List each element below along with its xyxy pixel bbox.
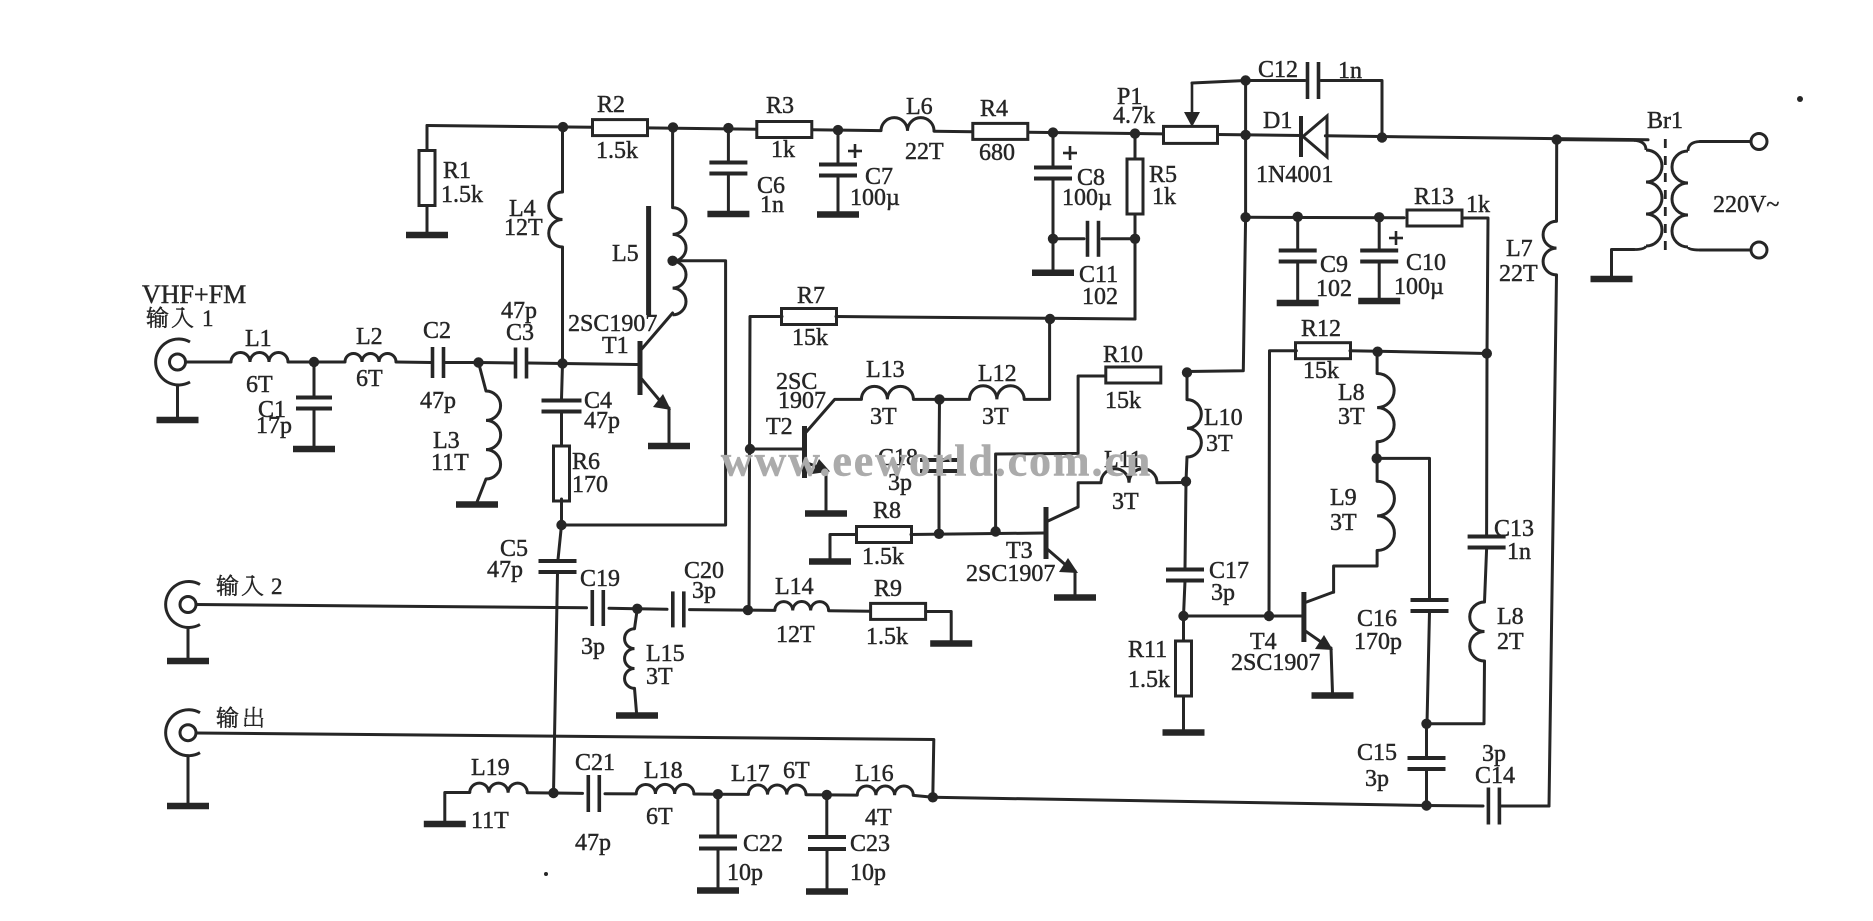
wire C5 down to filter <box>554 573 558 793</box>
svg-text:L8: L8 <box>1497 604 1524 630</box>
transistor T1 base bar <box>638 341 643 395</box>
svg-text:L17: L17 <box>731 761 770 787</box>
wire input2 line <box>196 605 587 608</box>
transformer Br1 core <box>1664 139 1667 250</box>
node R12-L8 <box>1372 347 1382 357</box>
node second rail left <box>1240 212 1250 222</box>
inductor L14 <box>775 574 829 648</box>
svg-text:47p: 47p <box>575 830 611 856</box>
capacitor C16 <box>1354 600 1449 655</box>
svg-text:1.5k: 1.5k <box>441 182 483 208</box>
inductor L3 <box>431 391 501 479</box>
capacitor C10 <box>1360 250 1446 300</box>
svg-text:11T: 11T <box>431 450 469 476</box>
node R8-R10 <box>990 526 1000 536</box>
wire L10 to L11 node <box>1186 457 1187 482</box>
svg-text:www.eeworld.com.cn: www.eeworld.com.cn <box>721 437 1152 486</box>
wire L15 node to C20 <box>637 607 667 611</box>
svg-text:C23: C23 <box>850 831 890 857</box>
wire C1 to ground <box>313 410 316 446</box>
ground C8 <box>1032 269 1074 276</box>
transistor T2 labels <box>766 369 826 440</box>
terminal 220V bottom <box>1751 242 1767 258</box>
svg-text:L18: L18 <box>644 758 683 784</box>
wire R8 node up to R10 <box>996 376 1106 532</box>
svg-text:3T: 3T <box>1330 510 1357 536</box>
wire rail to R5 <box>1134 134 1137 159</box>
svg-text:T1: T1 <box>602 333 629 359</box>
wire C20 to T2 node <box>690 608 748 612</box>
ground C22 <box>697 887 739 894</box>
diode D1 <box>1256 108 1333 188</box>
potentiometer P1 <box>1113 84 1218 143</box>
node R8-C18 <box>934 529 944 539</box>
svg-text:L2: L2 <box>356 324 383 350</box>
wire P1 wiper to C12 node <box>1192 81 1246 84</box>
svg-text:3T: 3T <box>982 404 1009 430</box>
svg-text:10p: 10p <box>727 860 763 886</box>
capacitor C22 <box>699 831 783 886</box>
svg-text:220V~: 220V~ <box>1713 192 1779 218</box>
wire L4 to T1 base <box>561 247 564 364</box>
wire R6 to node <box>560 499 563 525</box>
node output-filter <box>928 792 938 802</box>
wire T2 base <box>750 448 802 451</box>
wire L13 node to C18 <box>938 399 942 459</box>
svg-text:3p: 3p <box>1365 766 1389 792</box>
wire R11 top <box>1182 616 1185 642</box>
wire C13 top <box>1485 354 1488 536</box>
svg-text:1k: 1k <box>1466 192 1490 218</box>
node L13-L12 <box>934 394 944 404</box>
svg-text:22T: 22T <box>1499 261 1538 287</box>
wire L8 to tap <box>1376 442 1379 482</box>
terminal 220V top <box>1751 134 1767 150</box>
wire C14 right <box>1501 805 1549 808</box>
svg-text:R12: R12 <box>1301 316 1341 342</box>
svg-text:C9: C9 <box>1320 252 1348 278</box>
node rail-L5 <box>668 122 678 132</box>
svg-text:15k: 15k <box>1303 358 1339 384</box>
wire L12 right up <box>1024 319 1049 399</box>
svg-text:Br1: Br1 <box>1647 108 1683 134</box>
ground C10 <box>1358 298 1400 305</box>
ground output <box>167 803 209 810</box>
node C19-L15 <box>632 604 642 614</box>
node L8-L9 tap <box>1372 453 1382 463</box>
svg-text:12T: 12T <box>776 622 815 648</box>
wire C11 right <box>1102 237 1135 240</box>
resistor R10 <box>1103 342 1161 414</box>
wire L17 to C23 node <box>806 793 827 796</box>
wire C1 node to L2 <box>314 361 345 364</box>
wire R12 node to L8 <box>1376 352 1379 374</box>
svg-text:15k: 15k <box>792 325 828 351</box>
ground input2 <box>167 658 209 665</box>
wire L3 to ground <box>477 479 486 502</box>
capacitor C13 <box>1468 516 1534 565</box>
wire L19 ground stem <box>445 793 470 822</box>
node T1 base <box>557 358 567 368</box>
capacitor C7 <box>819 164 900 211</box>
wire R12 left down <box>1269 351 1296 616</box>
wire C22 to ground <box>717 849 720 888</box>
node L18-C22 <box>713 789 723 799</box>
svg-text:2: 2 <box>271 574 283 599</box>
wire C17 to T4 base wire <box>1184 581 1186 616</box>
transistor T1 labels <box>568 311 657 359</box>
node rail-C8 <box>1048 127 1058 137</box>
svg-text:1.5k: 1.5k <box>1128 667 1170 693</box>
wire L2 to C2 <box>396 361 431 365</box>
node C16-L8b-C15 <box>1421 719 1431 729</box>
wire C22 stem <box>716 794 719 835</box>
capacitor C12 <box>1258 57 1362 99</box>
svg-text:1.5k: 1.5k <box>596 138 638 164</box>
wire L3 node to C3 <box>479 361 515 365</box>
ground L19 <box>424 821 466 828</box>
inductor L7 <box>1499 221 1557 287</box>
svg-text:D1: D1 <box>1263 108 1292 134</box>
connector input2 <box>166 582 200 628</box>
wire second rail <box>1246 216 1404 220</box>
inductor L10 <box>1187 400 1243 457</box>
node rail-C7 <box>833 125 843 135</box>
node L11-C17 <box>1181 476 1191 486</box>
svg-text:3p: 3p <box>581 634 605 660</box>
capacitor C21 <box>575 750 615 856</box>
svg-text:C22: C22 <box>743 831 783 857</box>
svg-text:R7: R7 <box>797 283 825 309</box>
svg-text:2T: 2T <box>1497 629 1524 655</box>
inductor L15 <box>625 629 685 690</box>
svg-text:L12: L12 <box>978 361 1017 387</box>
wire R8 left to ground <box>830 535 857 560</box>
svg-text:4T: 4T <box>865 805 892 831</box>
inductor L12 <box>970 361 1025 430</box>
svg-text:3T: 3T <box>1338 404 1365 430</box>
capacitor C15 <box>1357 740 1446 792</box>
wire output line <box>196 733 934 797</box>
ground Br1 <box>1591 276 1633 283</box>
capacitor C23 <box>808 831 890 886</box>
ground C1 <box>293 446 335 453</box>
node R10-L10 <box>1182 367 1192 377</box>
wire rail to C8 <box>1052 133 1055 166</box>
svg-text:47p: 47p <box>420 388 456 414</box>
transistor T4 labels <box>1231 629 1320 676</box>
inductor L4 <box>504 192 563 247</box>
wire L1 to C1 node <box>288 361 314 364</box>
node C10-R13 <box>1374 212 1384 222</box>
svg-text:10p: 10p <box>850 860 886 886</box>
node rail-L4 <box>558 122 568 132</box>
capacitor C3 <box>501 298 537 379</box>
svg-text:R2: R2 <box>597 92 625 118</box>
ground T1 emitter <box>648 443 690 450</box>
inductor L18 <box>636 758 694 830</box>
wire top supply rail <box>427 126 1648 140</box>
node rail-D1 anode <box>1240 130 1250 140</box>
capacitor C18 <box>878 445 958 496</box>
svg-text:3p: 3p <box>1211 580 1235 606</box>
wire rail to L4 <box>561 127 564 192</box>
svg-text:6T: 6T <box>356 366 383 392</box>
wire L15 to ground <box>635 688 637 712</box>
inductor L6 <box>881 94 944 165</box>
capacitor C17 <box>1166 558 1249 606</box>
resistor R13 <box>1407 184 1490 226</box>
svg-text:6T: 6T <box>246 372 273 398</box>
wire C13 to L8b <box>1485 549 1487 602</box>
svg-text:1: 1 <box>202 306 214 331</box>
svg-text:C3: C3 <box>506 320 534 346</box>
svg-text:R11: R11 <box>1128 637 1167 663</box>
wire D1 node down to second rail <box>1244 135 1247 217</box>
label VHF+FM <box>142 280 246 309</box>
wire Br1 secondary bottom <box>1700 249 1751 252</box>
wire C21 to L18 <box>605 792 636 795</box>
transistor T4 emitter <box>1304 630 1333 693</box>
wire rail to R1 <box>426 126 429 151</box>
node C9 top <box>1293 212 1303 222</box>
wire L14 to R9 <box>829 609 871 613</box>
svg-text:100µ: 100µ <box>850 185 900 211</box>
svg-text:C12: C12 <box>1258 57 1298 83</box>
node C17-R11 <box>1178 611 1188 621</box>
wire L15 top <box>635 609 638 629</box>
svg-text:R13: R13 <box>1414 184 1454 210</box>
transistor T4 base bar <box>1301 592 1306 642</box>
svg-text:680: 680 <box>979 140 1015 166</box>
node rail-L7 <box>1552 134 1562 144</box>
wire C8 to C11 node <box>1052 180 1055 239</box>
transistor T3 base bar <box>1044 507 1049 559</box>
ground L3 <box>456 501 498 508</box>
wire node to L17 <box>718 793 748 796</box>
svg-text:2SC1907: 2SC1907 <box>966 561 1055 587</box>
wire node to L14 <box>748 609 775 612</box>
svg-text:1k: 1k <box>771 137 795 163</box>
capacitor C4 <box>542 388 621 434</box>
node T2 base <box>745 444 755 454</box>
inductor L13 <box>861 357 913 430</box>
svg-text:3p: 3p <box>692 578 716 604</box>
svg-text:22T: 22T <box>905 139 944 165</box>
svg-text:C15: C15 <box>1357 740 1397 766</box>
svg-text:L8: L8 <box>1338 380 1365 406</box>
wire C1 stem <box>313 362 316 396</box>
node L17-C23 <box>822 790 832 800</box>
wire L3 top <box>479 363 487 392</box>
resistor R11 <box>1128 637 1192 696</box>
wire C23 stem <box>825 795 828 836</box>
wire rail to L5 <box>671 127 674 207</box>
inductor L8a <box>1338 374 1394 442</box>
wire L9 to T4 collector <box>1334 551 1378 593</box>
svg-text:1n: 1n <box>1507 539 1531 565</box>
wire C2 to L3 node <box>446 361 479 364</box>
ground C9 <box>1277 300 1319 307</box>
wire R5 to C11 node <box>1134 214 1137 239</box>
wire R5 node down to R7 wire <box>1134 239 1137 319</box>
ground R1 <box>406 232 448 239</box>
svg-text:C19: C19 <box>580 566 620 592</box>
node rail-C12 <box>1377 132 1387 142</box>
wire C10 stem <box>1378 217 1381 249</box>
wire C3 to T1 base node <box>529 362 563 366</box>
capacitor C11 <box>1079 221 1118 310</box>
wire C23 to ground <box>826 850 829 890</box>
wire R6 node to C5 <box>558 525 562 560</box>
wire C18 to R8 node <box>938 472 941 534</box>
wire C4 to R6 <box>560 412 563 447</box>
ground C6 <box>707 211 749 218</box>
wire C12 right <box>1321 81 1382 138</box>
wire R8 right to T3 base <box>911 533 1044 535</box>
node rail-C6 <box>723 123 733 133</box>
svg-text:C2: C2 <box>423 318 451 344</box>
capacitor C2 <box>420 318 456 414</box>
svg-text:L19: L19 <box>471 755 510 781</box>
wire C15 stem top <box>1425 724 1428 757</box>
wire L18 to C22 node <box>694 793 718 796</box>
label input2 <box>217 574 283 599</box>
transistor T2 base bar <box>802 426 807 478</box>
node C2-L3 <box>473 357 483 367</box>
resistor R5 <box>1127 159 1177 214</box>
wire C9 to ground <box>1296 263 1299 300</box>
node R12-C13 <box>1482 348 1492 358</box>
wire C10 to ground <box>1378 263 1381 298</box>
svg-text:3T: 3T <box>1112 489 1139 515</box>
svg-text:L9: L9 <box>1330 485 1357 511</box>
wire L13-L12 <box>913 398 969 401</box>
label input1 <box>147 306 214 331</box>
ground C7 <box>817 211 859 218</box>
inductor L9 <box>1330 481 1394 550</box>
capacitor C5 <box>487 536 577 583</box>
label output <box>217 707 263 728</box>
transistor T4 collector <box>1304 592 1334 603</box>
svg-text:47p: 47p <box>487 557 523 583</box>
inductor L2 <box>345 324 396 392</box>
svg-text:47p: 47p <box>584 408 620 434</box>
wire input1 to ground <box>176 385 179 417</box>
resistor R3 <box>757 93 812 163</box>
svg-text:170: 170 <box>572 472 608 498</box>
resistor R9 <box>866 576 926 650</box>
svg-text:100µ: 100µ <box>1394 274 1444 300</box>
wire C12 left <box>1246 79 1305 82</box>
svg-text:L14: L14 <box>775 574 814 600</box>
inductor L1 <box>231 326 288 398</box>
svg-text:L10: L10 <box>1204 405 1243 431</box>
resistor R1 <box>419 151 483 209</box>
ground L15 <box>616 712 658 719</box>
wire rail to C7 <box>837 130 840 163</box>
svg-text:17p: 17p <box>256 413 292 439</box>
wire R7 left down to T2 base <box>749 317 782 611</box>
inductor L16 <box>855 761 913 831</box>
ground T4 emitter <box>1312 692 1354 699</box>
ground R8 <box>809 558 851 565</box>
potentiometer P1 wiper <box>1184 83 1200 127</box>
wire C16 down <box>1427 612 1430 724</box>
label 220V <box>1713 192 1779 218</box>
transformer Br1 primary <box>1634 140 1662 249</box>
svg-text:R3: R3 <box>766 93 794 119</box>
wire Br1 primary to ground <box>1612 250 1635 277</box>
ground R11 <box>1163 729 1205 736</box>
ground C23 <box>806 888 848 895</box>
transistor T1 collector <box>640 313 673 351</box>
node rail-R5 <box>1130 128 1140 138</box>
ground input1 <box>157 417 199 424</box>
transformer Br1 label <box>1647 108 1683 134</box>
svg-text:102: 102 <box>1316 276 1352 302</box>
svg-text:12T: 12T <box>504 215 543 241</box>
svg-text:L6: L6 <box>906 94 933 120</box>
wire rail to C6 <box>727 128 730 161</box>
wire R11 to ground <box>1182 696 1185 730</box>
wire R1 to ground <box>426 206 429 233</box>
inductor L5 <box>612 206 686 315</box>
svg-text:R10: R10 <box>1103 342 1143 368</box>
svg-text:R8: R8 <box>873 498 901 524</box>
node R6-C5 <box>556 520 566 530</box>
wire C7 to ground <box>837 177 840 212</box>
svg-text:1n: 1n <box>760 192 784 218</box>
wire T1 base to C4 <box>562 364 563 400</box>
inductor L8b <box>1470 602 1524 661</box>
capacitor C6 <box>709 163 785 219</box>
wire rail to Br1 primary <box>1557 138 1634 142</box>
wire L7 top <box>1555 140 1558 222</box>
wire second rail down to R10 node <box>1187 217 1246 371</box>
svg-text:R4: R4 <box>980 96 1008 122</box>
wire L11 node to C17 <box>1185 482 1186 569</box>
svg-text:C14: C14 <box>1475 763 1515 789</box>
svg-text:R9: R9 <box>874 576 902 602</box>
transistor T2 emitter <box>805 459 831 511</box>
capacitor C8 polarity <box>1063 146 1077 160</box>
svg-text:L1: L1 <box>245 326 272 352</box>
svg-text:170p: 170p <box>1354 629 1402 655</box>
capacitor C20 <box>673 558 724 627</box>
node wiper-C12 <box>1240 75 1250 85</box>
wire L11 right <box>1157 481 1186 484</box>
wire C6 to ground <box>727 175 730 211</box>
svg-text:L7: L7 <box>1506 236 1533 262</box>
speck <box>544 96 1803 876</box>
wire L5 tap feedback <box>562 261 726 525</box>
capacitor C7 polarity <box>848 144 862 158</box>
wire L16 to corner node <box>913 795 933 797</box>
wire C9 stem <box>1296 217 1299 249</box>
svg-text:VHF+FM: VHF+FM <box>142 280 246 309</box>
svg-text:3T: 3T <box>1206 431 1233 457</box>
wire T4 base <box>1184 615 1303 618</box>
connector output <box>166 710 200 756</box>
node C15-line <box>1421 800 1431 810</box>
svg-text:1k: 1k <box>1152 184 1176 210</box>
ground T3 emitter <box>1054 594 1096 601</box>
wire C11 left <box>1053 237 1084 240</box>
node L1-C1 <box>309 357 319 367</box>
node R12-T4base <box>1264 611 1274 621</box>
transistor T3 emitter <box>1046 548 1078 595</box>
